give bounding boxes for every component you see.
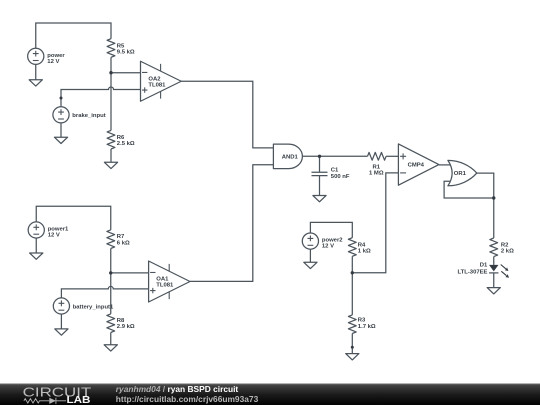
wire R2 to D1 <box>493 257 495 265</box>
svg-text:AND1: AND1 <box>282 155 299 161</box>
svg-text:R2: R2 <box>501 242 509 248</box>
CircuitLab logo <box>23 386 92 405</box>
ground (C1) <box>313 196 326 202</box>
svg-text:500 nF: 500 nF <box>331 174 350 180</box>
ground (power1) <box>30 253 43 259</box>
wire power top to R5 <box>36 23 111 48</box>
svg-text:D1: D1 <box>480 263 488 269</box>
wire OR1 output <box>477 173 494 198</box>
op-amp OA2 TL081 <box>141 61 182 101</box>
ground (R6) <box>104 162 117 168</box>
wire OA1 output to AND1 input B <box>190 165 273 282</box>
wire AND output node to C1 <box>319 156 321 172</box>
wire R4 to node <box>351 256 353 273</box>
op-amp OA1 TL081 <box>149 261 190 302</box>
node E (OR1 output / feedback / R2) <box>492 196 495 199</box>
wire power2 to R4 <box>310 222 352 237</box>
wire OA2 output to AND1 input A <box>181 81 273 148</box>
svg-text:6 kΩ: 6 kΩ <box>117 240 130 246</box>
resistor R6 2.5k <box>107 130 135 149</box>
svg-text:ryanhmd04 / ryan BSPD circuit: ryanhmd04 / ryan BSPD circuit <box>116 384 239 394</box>
capacitor C1 500nF <box>312 168 350 180</box>
svg-text:brake_input: brake_input <box>72 113 105 119</box>
voltage source battery_input1 <box>53 298 114 314</box>
ground (R8) <box>104 345 117 351</box>
resistor R3 1.7k <box>348 315 376 334</box>
node dot R3 bottom <box>351 346 354 349</box>
svg-text:12 V: 12 V <box>47 59 59 65</box>
wire R3 to ground <box>351 334 353 354</box>
wire brake_input to OA2 non-inverting input (hop over column) <box>61 87 141 107</box>
svg-text:12 V: 12 V <box>322 244 334 250</box>
wire R6 to ground <box>110 149 112 162</box>
voltage source brake_input <box>53 107 106 123</box>
OR gate OR1 <box>448 160 477 185</box>
svg-text:R3: R3 <box>358 318 366 324</box>
wire OR1 feedback to input B <box>444 181 494 198</box>
svg-text:TL081: TL081 <box>156 283 174 289</box>
comparator CMP4 <box>398 144 439 185</box>
voltage source power 12V <box>28 48 66 65</box>
wire R1 to CMP4 non-inverting input <box>386 155 398 157</box>
resistor R7 6k <box>107 230 130 249</box>
svg-text:R4: R4 <box>358 242 366 248</box>
svg-text:C1: C1 <box>331 168 339 174</box>
wire battery_input1 to ground <box>60 314 62 329</box>
node D (R4/R3 to CMP4) <box>351 271 354 274</box>
resistor R8 2.9k <box>107 314 135 333</box>
resistor R4 1k <box>348 238 371 257</box>
node B (R7/R8 divider to OA1) <box>109 271 112 274</box>
svg-text:2.5 kΩ: 2.5 kΩ <box>117 141 135 147</box>
ground (brake_input) <box>54 137 67 143</box>
svg-text:R7: R7 <box>117 234 125 240</box>
ground (power2) <box>304 262 317 268</box>
wire node to OA2 inverting input <box>111 72 141 74</box>
ground (battery_input1) <box>55 329 68 335</box>
wire node to R3 <box>351 273 353 315</box>
AND gate AND1 <box>273 144 302 169</box>
wire power1 to ground <box>35 238 37 253</box>
svg-text:1 kΩ: 1 kΩ <box>358 249 371 255</box>
resistor R5 9.5k <box>107 39 135 58</box>
wire CMP4 inverting input to R4/R3 node <box>352 173 398 273</box>
svg-text:12 V: 12 V <box>48 233 60 239</box>
svg-text:http://circuitlab.com/crjv66um: http://circuitlab.com/crjv66um93a73 <box>116 394 259 404</box>
footer bar <box>0 384 540 405</box>
svg-text:9.5 kΩ: 9.5 kΩ <box>117 49 135 55</box>
footer title text <box>116 384 259 404</box>
ground (R3) <box>346 354 359 360</box>
LED D1 LTL-307EE <box>457 263 509 278</box>
node dot brake_input wire joint <box>60 97 63 100</box>
svg-text:1 MΩ: 1 MΩ <box>369 170 384 176</box>
wire power2 to ground <box>309 249 311 262</box>
resistor R1 1M <box>368 152 387 176</box>
wire R8 to ground <box>110 333 112 345</box>
wire R5 to R6 column <box>110 57 112 130</box>
wire battery_input1 to OA1 non-inverting input (hop over column) <box>61 286 148 298</box>
wire node to R2 <box>493 198 495 238</box>
svg-text:2 kΩ: 2 kΩ <box>501 249 514 255</box>
ground (D1) <box>487 288 500 294</box>
voltage source power1 12V <box>28 222 69 239</box>
svg-text:LTL-307EE: LTL-307EE <box>457 270 487 276</box>
wire power1 top to R7 <box>36 206 111 230</box>
wire brake_input to ground <box>60 123 62 137</box>
node C (AND output / C1 / R1) <box>318 155 321 158</box>
wire power to ground <box>35 64 37 80</box>
resistor R2 2k <box>490 238 514 257</box>
wire C1 to ground <box>319 176 321 196</box>
wire CMP4 output to OR1 input A <box>439 164 450 166</box>
svg-text:TL081: TL081 <box>148 82 166 88</box>
svg-text:R6: R6 <box>117 135 125 141</box>
ground (power) <box>29 80 42 86</box>
svg-text:1.7 kΩ: 1.7 kΩ <box>358 324 376 330</box>
svg-text:R5: R5 <box>117 43 125 49</box>
svg-text:R1: R1 <box>373 164 381 170</box>
svg-text:LAB: LAB <box>67 395 91 405</box>
svg-text:2.9 kΩ: 2.9 kΩ <box>117 324 135 330</box>
wire D1 to ground <box>493 273 495 288</box>
svg-text:battery_input1: battery_input1 <box>73 304 114 310</box>
svg-text:OR1: OR1 <box>454 171 467 177</box>
wire R7 to R8 column <box>110 249 112 314</box>
voltage source power2 12V <box>302 233 343 250</box>
wire node to OA1 inverting input <box>111 272 149 274</box>
svg-text:CMP4: CMP4 <box>408 163 425 169</box>
wire AND1 output to R1 <box>302 155 367 157</box>
svg-text:R8: R8 <box>117 318 125 324</box>
node A (R5/R6 divider to OA2) <box>109 71 112 74</box>
